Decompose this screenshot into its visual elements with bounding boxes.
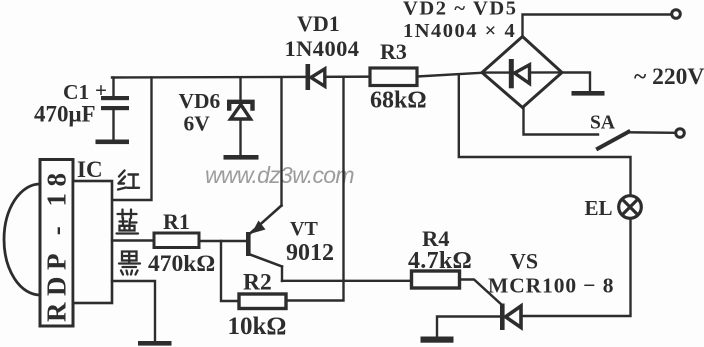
svg-text:R1: R1 [163, 209, 190, 234]
label black (CJK) [119, 252, 140, 275]
thyristor VS [500, 304, 521, 331]
terminal (AC line top) [672, 10, 681, 19]
label red (CJK) [118, 171, 139, 190]
wire: blue pin to R1 [112, 239, 154, 241]
svg-text:EL: EL [585, 196, 613, 220]
zener diode VD6 [229, 78, 252, 156]
svg-text:RDP - 18: RDP - 18 [42, 167, 72, 323]
svg-text:470μF: 470μF [34, 102, 96, 127]
wire: collector to R4 [282, 280, 412, 282]
resistor R2 [239, 294, 286, 309]
resistor R4 [412, 271, 460, 288]
svg-text:470kΩ: 470kΩ [148, 251, 215, 277]
wire: R1 to base [199, 240, 246, 242]
svg-text:C1: C1 [63, 80, 89, 104]
resistor R3 [370, 68, 417, 86]
IC body RDP-18 [40, 160, 73, 327]
svg-text:~ 220V: ~ 220V [634, 64, 704, 90]
wire: lamp to thyristor [521, 218, 631, 316]
svg-text:VS: VS [510, 249, 538, 274]
svg-text:1N4004: 1N4004 [285, 36, 360, 61]
wire: mid vertical (VD1/R3 node down) [287, 77, 344, 301]
wire: red pin riser [112, 78, 152, 201]
terminal (AC line bottom) [676, 129, 685, 138]
svg-text:6V: 6V [184, 112, 211, 136]
svg-text:VD2 ~ VD5: VD2 ~ VD5 [403, 0, 518, 20]
label C1 + [63, 78, 107, 104]
svg-text:www.dz3w.com: www.dz3w.com [205, 162, 354, 188]
wire: emitter riser [280, 78, 282, 206]
ground (VD6) [224, 155, 259, 160]
wire: base to R2 drop [221, 241, 239, 301]
wire: bridge bottom to switch [524, 108, 599, 135]
switch SA [598, 130, 675, 149]
IC pin block [73, 181, 112, 303]
wire: black pin to ground [112, 281, 155, 341]
svg-text:R3: R3 [380, 39, 407, 64]
wire: cathode to ground [437, 317, 500, 337]
svg-text:MCR100 − 8: MCR100 − 8 [488, 274, 614, 298]
svg-text:+: + [95, 78, 107, 102]
wire: EL feed drop [459, 75, 631, 196]
svg-text:SA: SA [590, 113, 615, 134]
IC sensor dome [4, 184, 40, 295]
ground (black pin) [138, 341, 172, 346]
svg-text:R2: R2 [243, 270, 272, 296]
wire: bridge right arm [562, 73, 590, 92]
svg-text:1N4004 × 4: 1N4004 × 4 [403, 20, 516, 42]
lamp EL [619, 196, 642, 219]
label blue (CJK) [117, 210, 139, 234]
svg-text:4.7kΩ: 4.7kΩ [408, 248, 472, 274]
wire: R4 gate lead [460, 280, 503, 306]
svg-text:IC: IC [77, 157, 103, 182]
resistor R1 [154, 233, 199, 248]
capacitor C1 [101, 78, 129, 140]
ground (C1) [96, 140, 130, 145]
ground (bridge right) [572, 91, 605, 96]
svg-text:VD1: VD1 [297, 11, 340, 36]
svg-text:10kΩ: 10kΩ [228, 313, 287, 340]
wire: top supply rail [112, 73, 482, 78]
diode VD1 [306, 64, 325, 90]
ground (VS) [421, 337, 454, 343]
svg-text:68kΩ: 68kΩ [370, 88, 427, 114]
wire: bridge top to terminal [523, 15, 672, 37]
bridge rectifier VD2~VD5 [482, 37, 562, 108]
svg-text:VT: VT [290, 218, 318, 240]
svg-text:VD6: VD6 [179, 89, 221, 113]
transistor VT [246, 206, 282, 282]
svg-text:9012: 9012 [286, 240, 334, 266]
